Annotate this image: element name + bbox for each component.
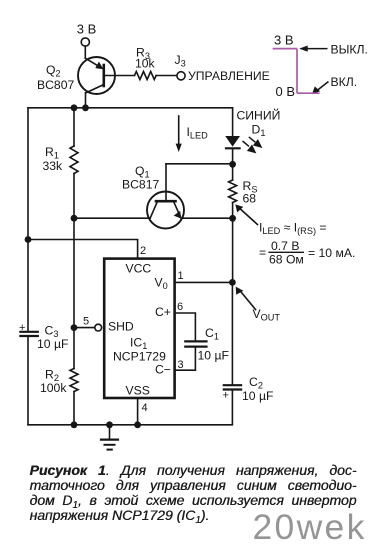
wire C2 to bottom rail [28,390,232,425]
IRS arrowhead [235,204,243,212]
svg-text:10 µF: 10 µF [198,349,229,363]
arrow ILED line [178,116,180,144]
junction VSS rail [134,421,141,428]
svg-text:3 В: 3 В [77,22,97,37]
svg-text:10k: 10k [135,57,156,71]
svg-text:D1: D1 [252,123,266,139]
wave arrows lines [303,49,329,91]
capacitor C3 plates [20,331,37,333]
svg-text:ВЫКЛ.: ВЫКЛ. [331,43,368,57]
node D1 cathode RS top [229,161,236,168]
wave ON arrowhead [312,86,320,94]
Q2 base bar [103,65,106,86]
wire Q1 top to LED node [166,163,233,165]
Q2 base lead wire to R3 [105,75,135,77]
wire node to RS [232,164,234,180]
junction R1 Q1 node [71,215,78,222]
resistor R2 zigzag [70,369,78,392]
svg-text:V0: V0 [155,276,168,292]
svg-text:BC807: BC807 [37,78,74,92]
svg-text:+: + [223,390,229,402]
junction SHD node [71,324,78,331]
watermark 20wek [253,510,367,545]
svg-text:VSS: VSS [126,384,150,398]
svg-text:J3: J3 [175,53,186,69]
wave OFF arrowhead [299,46,308,52]
svg-text:68 Ом: 68 Ом [269,253,304,267]
capacitor C1 plates [185,340,206,342]
svg-text:VOUT: VOUT [253,307,281,323]
node RS bottom [229,215,236,222]
svg-text:6: 6 [177,301,183,313]
fraction bar [269,251,305,253]
node VOUT [229,279,236,286]
svg-text:УПРАВЛЕНИЕ: УПРАВЛЕНИЕ [188,69,270,83]
svg-text:+: + [19,322,25,334]
svg-text:5: 5 [83,316,89,328]
wire SHD node to R2 [73,328,75,369]
Q1 collector leg [150,202,157,217]
wire D1 cathode to node [232,148,234,164]
LED D1 triangle [95,46,320,295]
wire RS node down to Vout node [232,218,234,282]
wire C- pin3 [175,347,196,370]
terminal J3 circle [177,72,185,80]
wire R1 to base node [73,174,75,219]
ground bar1 [101,439,118,441]
wire Q1 emitter to RS node [181,217,233,219]
pin5 SHD bubble [95,324,102,331]
VOUT arrowhead [236,287,244,295]
svg-text:0 В: 0 В [276,84,296,99]
wire VSS pin4 [137,398,139,425]
wire Q1 base horizontal left [74,217,150,219]
Q1 emitter arrowhead [174,211,182,219]
svg-text:C1: C1 [205,326,219,342]
wire R2 to bottom rail [73,392,75,425]
ground stub [109,425,111,439]
Q2 emitter arrowhead [95,62,103,70]
wire Q2 collector down [85,93,87,108]
wire D1 anode [232,108,234,136]
wire Vout node to C2 [231,282,233,385]
LED cathode bar [225,147,241,149]
transistor Q1 circle [147,192,184,229]
svg-text:= 10 мА.: = 10 мА. [308,246,355,260]
wire RS to node [232,203,234,219]
junction VCC branch [25,236,32,243]
capacitor C2 plates [224,384,241,386]
ground bar2 [105,444,115,446]
wire 3V to Q2 emitter [84,46,86,58]
wire R1 column upper [73,108,75,146]
ground bar3 [108,449,112,451]
resistor R1 zigzag [70,146,78,174]
wire left vertical lower [27,337,29,425]
svg-text:3: 3 [178,359,184,371]
svg-text:2: 2 [140,245,146,257]
svg-text:ILED: ILED [187,125,209,141]
svg-text:СИНИЙ: СИНИЙ [237,108,281,123]
svg-text:10 µF: 10 µF [242,389,273,403]
svg-text:C+: C+ [155,305,171,319]
svg-text:BC817: BC817 [122,178,159,192]
svg-text:4: 4 [142,402,148,414]
Q2 emitter diagonal [85,58,100,67]
wire left vertical [27,108,29,331]
Q1 base bar [156,200,176,203]
wire V0 pin1 [175,281,233,283]
svg-text:3 В: 3 В [274,33,294,48]
svg-text:NCP1729: NCP1729 [113,350,166,364]
waveform [273,49,320,94]
svg-text:Q2: Q2 [46,63,61,79]
junction R2 bottom rail [71,421,78,428]
transistor Q2 circle [78,57,115,94]
svg-text:C−: C− [155,363,171,377]
svg-text:=: = [259,246,266,260]
wire node to SHD [73,218,75,327]
LED light arrows [243,137,262,152]
resistor R3 zigzag [135,72,157,80]
arrow VOUT pointer line [239,290,256,310]
svg-text:10 µF: 10 µF [37,337,68,351]
terminal 3V circle [81,38,89,46]
svg-text:100k: 100k [40,381,67,395]
svg-text:ILED ≈ I(RS) =: ILED ≈ I(RS) = [259,221,327,237]
svg-text:33k: 33k [43,159,64,173]
arrow IRS pointer line [239,208,258,225]
wire VCC pin2 [28,240,138,259]
svg-text:SHD: SHD [108,320,134,334]
caption [30,463,357,523]
svg-text:VCC: VCC [126,262,152,276]
wire R3 to J3 [156,75,177,77]
Q2 collector diagonal [86,85,104,94]
svg-text:1: 1 [178,270,184,282]
wire C+ pin6 [175,313,196,341]
wire Q1 top lead [165,164,167,201]
ILED arrowhead [176,144,182,152]
wire SHD pin5 [74,327,95,329]
junction R1 top rail [71,104,78,111]
IC1 box [104,259,174,398]
svg-text:ВКЛ.: ВКЛ. [331,75,358,89]
wire top rail [28,107,233,109]
svg-text:68: 68 [243,192,257,206]
Q1 emitter leg [174,202,180,216]
resistor RS zigzag [229,180,237,203]
junction Q2 collector rail [82,104,89,111]
junction ground rail [106,421,113,428]
svg-text:0.7 В: 0.7 В [271,239,299,253]
